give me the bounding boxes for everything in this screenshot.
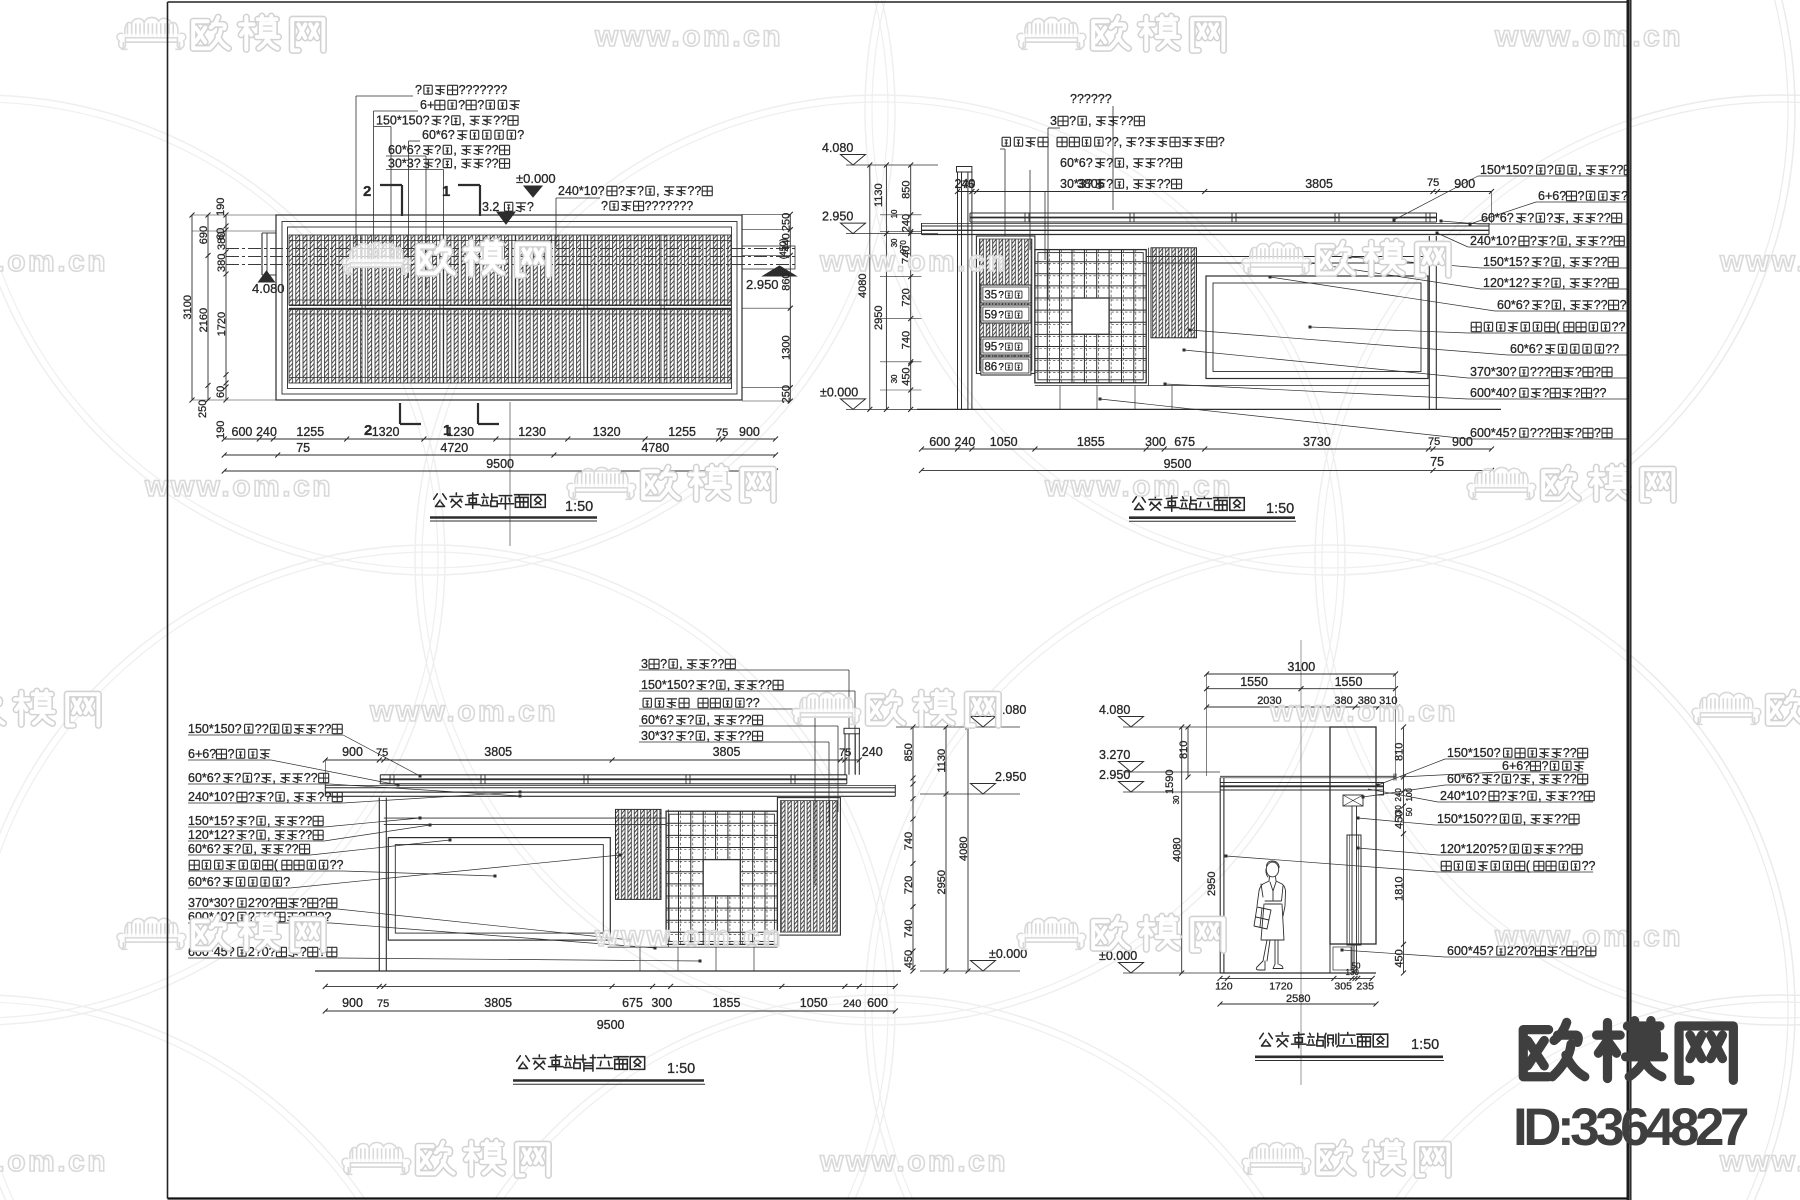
- svg-text:?: ?: [1527, 211, 1534, 225]
- svg-text:690: 690: [198, 226, 210, 244]
- svg-text:1720: 1720: [1269, 981, 1293, 993]
- side right dims: [1403, 727, 1405, 973]
- svg-text:,: ,: [453, 157, 456, 171]
- svg-text:86: 86: [984, 362, 997, 374]
- svg-text:60*6?: 60*6?: [1497, 298, 1530, 312]
- svg-text:250: 250: [780, 213, 792, 231]
- svg-text:2?0?: 2?0?: [248, 896, 276, 910]
- svg-text:50: 50: [1405, 807, 1414, 816]
- svg-text:?: ?: [458, 98, 465, 112]
- plan level marker 2.950: [763, 266, 796, 276]
- svg-text:??: ??: [317, 722, 331, 736]
- side totem sign: [1330, 727, 1376, 944]
- svg-text:850: 850: [901, 181, 913, 199]
- svg-text:?: ?: [1106, 156, 1113, 170]
- svg-text:3805: 3805: [1077, 177, 1105, 191]
- svg-text:4.080: 4.080: [1099, 703, 1130, 717]
- svg-text:380: 380: [216, 254, 228, 272]
- svg-text:??????: ??????: [1070, 92, 1112, 106]
- svg-text:1230: 1230: [518, 425, 546, 439]
- svg-text:?: ?: [1578, 189, 1585, 203]
- svg-text:450: 450: [901, 367, 913, 385]
- svg-text:,: ,: [679, 657, 682, 671]
- svg-text:900: 900: [739, 425, 760, 439]
- PLAN VIEW roof outline: [276, 215, 742, 400]
- sign box with slats: [976, 236, 1035, 374]
- svg-text:75: 75: [1428, 436, 1440, 448]
- centre dash-dot lines: [226, 248, 795, 250]
- svg-text:850: 850: [903, 743, 915, 761]
- svg-text:600: 600: [867, 996, 888, 1010]
- svg-text:1050: 1050: [800, 996, 828, 1010]
- svg-text:120: 120: [1215, 981, 1233, 993]
- inner edge lines: [289, 240, 731, 242]
- svg-text:2950: 2950: [1206, 872, 1218, 896]
- svg-text:?: ?: [1547, 163, 1554, 177]
- svg-text:??: ??: [298, 814, 312, 828]
- back title: [517, 1056, 530, 1069]
- svg-text:240*10?: 240*10?: [188, 790, 235, 804]
- svg-text:,: ,: [267, 814, 270, 828]
- svg-text:600*45?: 600*45?: [1470, 426, 1517, 440]
- svg-text:2.950: 2.950: [995, 770, 1026, 784]
- svg-text:,: ,: [1523, 812, 1526, 826]
- svg-text:??: ??: [1563, 746, 1577, 760]
- svg-text:??: ??: [1563, 772, 1577, 786]
- svg-text:?: ?: [477, 98, 484, 112]
- side roof slab: [1220, 782, 1384, 784]
- svg-text:120*120?5?: 120*120?5?: [1440, 842, 1507, 856]
- svg-text:3805: 3805: [1305, 177, 1333, 191]
- svg-text:??: ??: [710, 657, 724, 671]
- back glass line: [325, 784, 895, 786]
- SIDE ELEV centre axis: [1300, 640, 1302, 1085]
- back slat panel: [667, 809, 669, 947]
- svg-text:35: 35: [984, 290, 997, 302]
- svg-text:?: ?: [1519, 789, 1526, 803]
- svg-text:???: ???: [1530, 426, 1551, 440]
- svg-text:1:50: 1:50: [1266, 501, 1294, 517]
- svg-text:1300: 1300: [780, 335, 792, 359]
- side title: [1260, 1033, 1273, 1046]
- svg-text:2580: 2580: [1286, 993, 1310, 1005]
- svg-text:www.om.cn: www.om.cn: [1494, 20, 1683, 53]
- svg-text:(450): (450): [778, 238, 788, 259]
- svg-text:???????: ???????: [459, 83, 508, 97]
- svg-text:?: ?: [1069, 114, 1076, 128]
- svg-text:???: ???: [1530, 365, 1551, 379]
- bay divider mullions: [362, 235, 365, 383]
- svg-text:1: 1: [442, 183, 450, 200]
- svg-text:??: ??: [1157, 177, 1171, 191]
- svg-text:,: ,: [1562, 298, 1565, 312]
- svg-text:900: 900: [1452, 435, 1473, 449]
- svg-text:60*6?: 60*6?: [188, 771, 221, 785]
- svg-text:2: 2: [363, 183, 371, 200]
- lattice window: [1035, 250, 1146, 383]
- svg-text:300: 300: [1145, 435, 1166, 449]
- svg-text:?: ?: [601, 199, 608, 213]
- svg-text:?: ?: [248, 814, 255, 828]
- side glass canopy line: [1220, 775, 1396, 777]
- svg-text:??: ??: [1594, 298, 1608, 312]
- svg-text:2.950: 2.950: [822, 210, 853, 224]
- svg-text:235: 235: [1356, 981, 1374, 993]
- svg-text:?: ?: [660, 657, 667, 671]
- svg-text:1255: 1255: [668, 425, 696, 439]
- svg-text:?: ?: [998, 342, 1004, 353]
- svg-text:??: ??: [1593, 255, 1607, 269]
- svg-text:190: 190: [215, 421, 227, 439]
- svg-text:75: 75: [839, 747, 851, 759]
- svg-text:240: 240: [843, 998, 861, 1010]
- svg-text:?: ?: [283, 875, 290, 889]
- svg-text:600: 600: [929, 435, 950, 449]
- svg-text:?: ?: [708, 678, 715, 692]
- svg-text:??: ??: [1605, 342, 1619, 356]
- svg-text:240: 240: [862, 745, 883, 759]
- right column: [1428, 236, 1430, 409]
- svg-text:2.950: 2.950: [746, 277, 779, 292]
- svg-text:?: ?: [443, 114, 450, 128]
- svg-text:675: 675: [1174, 435, 1195, 449]
- svg-text:?: ?: [1575, 365, 1582, 379]
- svg-text:?: ?: [517, 128, 524, 142]
- svg-text:1810: 1810: [1394, 877, 1406, 901]
- svg-text:1:50: 1:50: [667, 1061, 695, 1077]
- svg-text:150*150?: 150*150?: [641, 678, 695, 692]
- svg-text:www.om.cn: www.om.cn: [819, 1145, 1008, 1178]
- svg-text:600: 600: [232, 425, 253, 439]
- svg-text:1550: 1550: [1240, 675, 1268, 689]
- svg-text:?: ?: [687, 713, 694, 727]
- svg-text:,: ,: [656, 184, 659, 198]
- svg-text:900: 900: [342, 996, 363, 1010]
- svg-text:?: ?: [434, 143, 441, 157]
- svg-text:?: ?: [1138, 135, 1145, 149]
- svg-text:?: ?: [1106, 177, 1113, 191]
- svg-text:3: 3: [1050, 114, 1057, 128]
- back left column: [378, 798, 380, 971]
- svg-text:600*45?: 600*45?: [1447, 944, 1494, 958]
- svg-text:?: ?: [267, 790, 274, 804]
- person figure: [1254, 861, 1286, 970]
- svg-text:,: ,: [1088, 114, 1091, 128]
- svg-text:,: ,: [1125, 177, 1128, 191]
- svg-text:??: ??: [758, 678, 772, 692]
- svg-text:1230: 1230: [446, 425, 474, 439]
- svg-text:30: 30: [1172, 795, 1181, 804]
- svg-text:150*150?: 150*150?: [376, 114, 430, 128]
- svg-text:810: 810: [1394, 743, 1406, 761]
- svg-text:250: 250: [197, 400, 209, 418]
- svg-text:860: 860: [780, 272, 792, 290]
- svg-text:www.om.cn: www.om.cn: [0, 245, 108, 278]
- side left glass wall: [1219, 778, 1221, 973]
- svg-text:370*30?: 370*30?: [1470, 365, 1517, 379]
- svg-text:,: ,: [453, 143, 456, 157]
- plan bottom dims: [224, 438, 775, 440]
- plan title: [434, 494, 447, 507]
- svg-text:?: ?: [234, 842, 241, 856]
- svg-text:9500: 9500: [1164, 457, 1192, 471]
- svg-text:,: ,: [727, 678, 730, 692]
- svg-text:150*150?: 150*150?: [1480, 163, 1534, 177]
- svg-text:?: ?: [618, 184, 625, 198]
- svg-text:1130: 1130: [936, 749, 948, 773]
- svg-text:240: 240: [955, 435, 976, 449]
- svg-text:?: ?: [1546, 211, 1553, 225]
- svg-text:?: ?: [1493, 772, 1500, 786]
- back wall base: [608, 946, 778, 948]
- svg-text:240*10?: 240*10?: [1440, 789, 1487, 803]
- svg-text:6+: 6+: [420, 98, 434, 112]
- svg-text:2950: 2950: [936, 870, 948, 894]
- svg-text:,: ,: [1568, 234, 1571, 248]
- svg-text:60*6?: 60*6?: [1481, 211, 1514, 225]
- plan right dims: [742, 213, 790, 215]
- svg-text:?: ?: [1574, 386, 1581, 400]
- svg-text:300: 300: [651, 996, 672, 1010]
- svg-text:?: ?: [1594, 365, 1601, 379]
- watermark logos: [117, 17, 186, 49]
- svg-text:?: ?: [1549, 234, 1556, 248]
- svg-text:?: ?: [1512, 772, 1519, 786]
- oumowang logo: [1523, 1022, 1585, 1076]
- svg-text:95: 95: [984, 342, 997, 354]
- svg-text:3805: 3805: [484, 745, 512, 759]
- svg-text:??: ??: [1593, 276, 1607, 290]
- svg-text:30: 30: [890, 374, 899, 383]
- svg-text:??: ??: [1569, 789, 1583, 803]
- ad glass panel: [1206, 276, 1428, 379]
- svg-text:3730: 3730: [1303, 435, 1331, 449]
- svg-text:?: ?: [1500, 789, 1507, 803]
- svg-text:?: ?: [1543, 255, 1550, 269]
- svg-text:75: 75: [296, 441, 310, 455]
- roof slat hatch upper band: [289, 235, 731, 305]
- 150x15 and 120x12 rails: [1146, 256, 1429, 258]
- svg-text:??: ??: [255, 722, 269, 736]
- back fascia board: [325, 787, 895, 789]
- svg-text:,: ,: [706, 713, 709, 727]
- svg-text:,: ,: [272, 771, 275, 785]
- svg-text:3100: 3100: [1287, 660, 1315, 674]
- svg-text:1050: 1050: [990, 435, 1018, 449]
- svg-text:,: ,: [706, 729, 709, 743]
- svg-text:??: ??: [317, 790, 331, 804]
- svg-text:?: ?: [1542, 759, 1549, 773]
- svg-text:6+6?: 6+6?: [1538, 189, 1566, 203]
- svg-text:,: ,: [1125, 156, 1128, 170]
- side bottom dims: [1220, 977, 1372, 979]
- side ad panel: [1347, 835, 1361, 945]
- svg-text:75: 75: [716, 427, 728, 439]
- svg-text:6+6?: 6+6?: [1502, 759, 1530, 773]
- svg-text:?: ?: [637, 184, 644, 198]
- svg-text:??: ??: [330, 858, 344, 872]
- svg-text:240*10?: 240*10?: [1470, 234, 1517, 248]
- svg-text:75: 75: [376, 747, 388, 759]
- svg-text:4780: 4780: [641, 441, 669, 455]
- fascia board 240x100: [922, 225, 1490, 227]
- right stub beam: [742, 246, 795, 269]
- svg-text:75: 75: [1427, 177, 1439, 189]
- svg-text:?: ?: [228, 747, 235, 761]
- svg-text:240: 240: [901, 214, 913, 232]
- svg-text:www.om.cn: www.om.cn: [819, 245, 1008, 278]
- svg-text:??: ??: [738, 713, 752, 727]
- svg-text:60*6?: 60*6?: [641, 713, 674, 727]
- svg-text:60*6?: 60*6?: [388, 143, 421, 157]
- svg-text:150*150??: 150*150??: [1437, 812, 1498, 826]
- svg-text:?: ?: [998, 310, 1004, 321]
- svg-text:1320: 1320: [372, 425, 400, 439]
- svg-text:,: ,: [1531, 772, 1534, 786]
- svg-text:720: 720: [901, 288, 913, 306]
- left stub column: [261, 233, 263, 275]
- svg-text:4080: 4080: [1172, 838, 1184, 862]
- svg-text:,: ,: [267, 828, 270, 842]
- route plates: [981, 285, 1031, 303]
- svg-text:?: ?: [253, 771, 260, 785]
- svg-text:60*6?: 60*6?: [188, 875, 221, 889]
- side top dims: [1207, 673, 1396, 675]
- svg-text:60*6?: 60*6?: [188, 842, 221, 856]
- back sign box (slats only): [777, 798, 840, 936]
- svg-text:3: 3: [641, 657, 648, 671]
- svg-text:9500: 9500: [597, 1018, 625, 1032]
- FRONT ELEV canopy beam 150x150: [970, 212, 1437, 214]
- svg-text:810: 810: [1178, 741, 1190, 759]
- svg-text:740: 740: [901, 331, 913, 349]
- svg-text:2950: 2950: [873, 306, 885, 330]
- watermark arcs: [0, 0, 895, 575]
- svg-text:?: ?: [998, 290, 1004, 301]
- svg-text:3100: 3100: [182, 295, 194, 319]
- svg-text:,: ,: [1538, 789, 1541, 803]
- svg-text:??: ??: [1554, 812, 1568, 826]
- svg-text:??: ??: [304, 771, 318, 785]
- svg-text:1130: 1130: [873, 183, 885, 207]
- border frame: [168, 1, 1630, 3]
- svg-text:?: ?: [1543, 276, 1550, 290]
- svg-text:675: 675: [622, 996, 643, 1010]
- back sign post above roof: [844, 728, 859, 734]
- back bottom dims: [325, 985, 895, 987]
- svg-text:60*6?: 60*6?: [422, 128, 455, 142]
- svg-text:75: 75: [377, 998, 389, 1010]
- svg-text:50: 50: [1352, 962, 1361, 971]
- svg-text:,: ,: [1562, 276, 1565, 290]
- svg-text:720: 720: [903, 876, 915, 894]
- svg-text:1550: 1550: [1335, 675, 1363, 689]
- svg-text:1:50: 1:50: [565, 499, 593, 515]
- svg-text:,: ,: [253, 842, 256, 856]
- svg-text:??: ??: [687, 184, 701, 198]
- svg-text:??: ??: [1157, 156, 1171, 170]
- front title: [1133, 497, 1146, 510]
- svg-text:www.om.cn: www.om.cn: [1044, 470, 1233, 503]
- svg-text:30*3?: 30*3?: [641, 729, 674, 743]
- svg-text:59: 59: [984, 310, 997, 322]
- plan left dims: [192, 214, 276, 216]
- svg-text:6+6?: 6+6?: [188, 747, 216, 761]
- svg-text:450: 450: [1394, 949, 1406, 967]
- svg-text:www.om.cn: www.om.cn: [594, 20, 783, 53]
- svg-text:??: ??: [1582, 859, 1596, 873]
- front bottom dims: [922, 448, 1492, 450]
- svg-text:1720: 1720: [216, 312, 228, 336]
- svg-text:??: ??: [746, 696, 760, 710]
- back rails: [384, 817, 666, 819]
- svg-text:??: ??: [493, 114, 507, 128]
- svg-text:?: ?: [319, 896, 326, 910]
- svg-text:www.om.cn: www.om.cn: [369, 695, 558, 728]
- svg-text:10: 10: [890, 209, 899, 218]
- svg-text:4.080: 4.080: [822, 141, 853, 155]
- svg-text:1855: 1855: [713, 996, 741, 1010]
- svg-text:150*15?: 150*15?: [1483, 255, 1530, 269]
- svg-text:?: ?: [434, 157, 441, 171]
- svg-text:??: ??: [1597, 211, 1611, 225]
- svg-text:1:50: 1:50: [1411, 1037, 1439, 1053]
- purlin centre beam: [289, 304, 731, 306]
- svg-text:60*6?: 60*6?: [1447, 772, 1480, 786]
- svg-text:?: ?: [1530, 234, 1537, 248]
- svg-text:?: ?: [1620, 298, 1627, 312]
- svg-text:www.om.cn: www.om.cn: [144, 470, 333, 503]
- svg-text:?: ?: [687, 729, 694, 743]
- svg-text:120*12?: 120*12?: [1483, 276, 1530, 290]
- svg-text:±0.000: ±0.000: [516, 171, 556, 186]
- svg-text:,: ,: [1562, 255, 1565, 269]
- svg-text:?: ?: [300, 896, 307, 910]
- svg-text:450: 450: [903, 950, 915, 968]
- svg-text:4720: 4720: [440, 441, 468, 455]
- svg-text:60*6?: 60*6?: [1510, 342, 1543, 356]
- svg-text:2160: 2160: [198, 308, 210, 332]
- svg-text:??: ??: [1557, 842, 1571, 856]
- wall base and tiles: [1035, 385, 1429, 387]
- svg-text:120*12?: 120*12?: [188, 828, 235, 842]
- svg-text:??: ??: [738, 729, 752, 743]
- svg-text:?: ?: [1594, 426, 1601, 440]
- svg-text:??: ??: [485, 157, 499, 171]
- svg-text:75: 75: [962, 179, 974, 191]
- svg-text:,: ,: [462, 114, 465, 128]
- svg-text:?: ?: [1218, 135, 1225, 149]
- svg-text:3.270: 3.270: [1099, 748, 1130, 762]
- svg-text:??: ??: [1612, 320, 1626, 334]
- svg-text:150*150?: 150*150?: [188, 722, 242, 736]
- svg-text:600*40?: 600*40?: [1470, 386, 1517, 400]
- front top dims: [958, 191, 1492, 193]
- side post 120: [1351, 806, 1353, 973]
- svg-text:900: 900: [342, 745, 363, 759]
- svg-text:1590: 1590: [1164, 770, 1176, 794]
- svg-text:305: 305: [1334, 981, 1352, 993]
- roof slat hatch lower band: [289, 309, 731, 383]
- svg-text:www.om.cn: www.om.cn: [1719, 245, 1800, 278]
- svg-text:3805: 3805: [484, 996, 512, 1010]
- svg-text:??: ??: [485, 143, 499, 157]
- roof bracket: [1343, 795, 1363, 806]
- svg-text:???????: ???????: [645, 199, 694, 213]
- svg-text:2.950: 2.950: [1099, 768, 1130, 782]
- svg-text:4080: 4080: [958, 837, 970, 861]
- svg-text:30*3?: 30*3?: [388, 157, 421, 171]
